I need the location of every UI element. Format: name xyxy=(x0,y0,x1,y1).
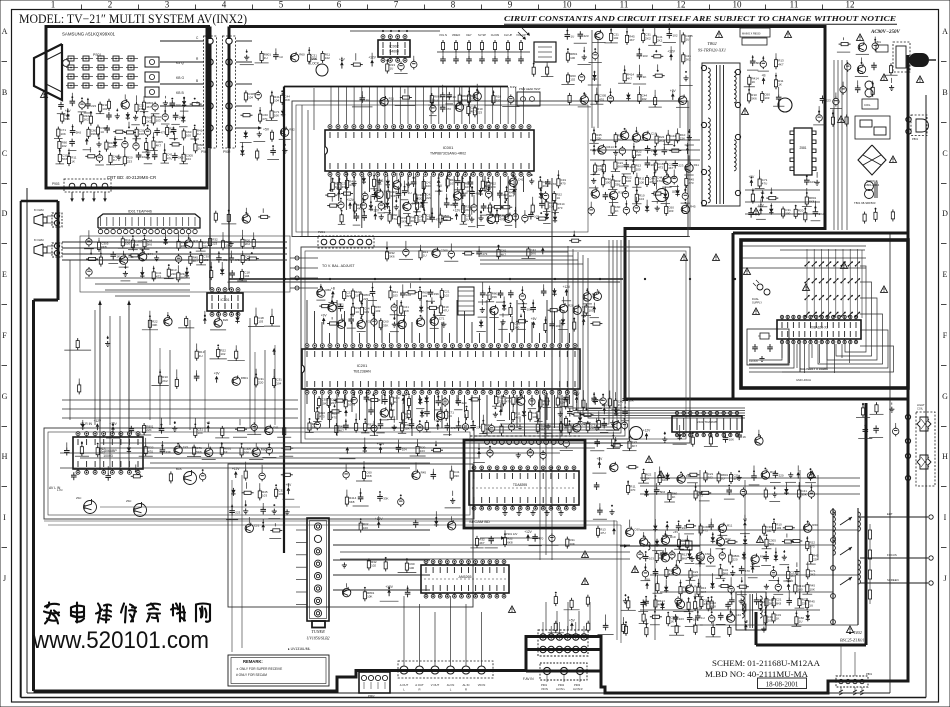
svg-text:SV SP: SV SP xyxy=(478,33,486,37)
svg-text:C41: C41 xyxy=(518,177,524,181)
svg-text:5K6: 5K6 xyxy=(62,157,68,161)
svg-text:KEY: KEY xyxy=(466,33,472,37)
IC xyxy=(207,288,243,317)
line filter T801 xyxy=(865,182,874,191)
svg-text:103: 103 xyxy=(176,103,181,107)
left area long verticals xyxy=(94,310,96,425)
svg-text:8: 8 xyxy=(451,0,456,10)
svg-text:473: 473 xyxy=(506,400,511,404)
thick loop left/bottom xyxy=(21,200,58,202)
svg-text:2K2: 2K2 xyxy=(651,163,657,167)
svg-text:IC301: IC301 xyxy=(220,298,229,302)
thick loop bottom xyxy=(34,637,910,694)
svg-text:223: 223 xyxy=(477,111,482,115)
svg-text:220: 220 xyxy=(258,381,263,385)
IC audio AN5265 xyxy=(421,560,509,598)
V.BAL wires xyxy=(290,257,318,259)
svg-text:G: G xyxy=(942,392,948,401)
svg-text:TC4066BP: TC4066BP xyxy=(99,449,117,453)
svg-text:47U: 47U xyxy=(443,309,449,313)
fuse F801 xyxy=(876,45,888,52)
svg-text:4K7: 4K7 xyxy=(146,105,152,109)
svg-text:+12V: +12V xyxy=(372,209,380,213)
thick vertical wire x284 xyxy=(283,87,285,554)
svg-text:I: I xyxy=(944,513,947,522)
right nested wires xyxy=(845,266,866,352)
svg-text:104: 104 xyxy=(274,99,279,103)
svg-text:H: H xyxy=(942,452,948,461)
svg-text:102: 102 xyxy=(444,293,449,297)
transformer T802 xyxy=(702,63,740,206)
svg-text:10: 10 xyxy=(563,0,573,10)
misc long verticals top xyxy=(301,105,303,236)
svg-text:4: 4 xyxy=(222,0,227,10)
svg-text:1U: 1U xyxy=(197,132,201,136)
right side gray verticals xyxy=(833,60,835,230)
svg-text:P902: P902 xyxy=(223,150,231,154)
svg-text:100: 100 xyxy=(605,181,610,185)
svg-text:1U: 1U xyxy=(390,67,394,71)
svg-text:D: D xyxy=(942,209,948,218)
svg-text:KB G: KB G xyxy=(176,76,184,80)
IC 2401 TDA4605 xyxy=(672,411,742,436)
svg-text:100: 100 xyxy=(560,401,565,405)
tuner box xyxy=(307,518,329,621)
CRT cluster components xyxy=(60,102,62,105)
svg-text:2581: 2581 xyxy=(799,146,806,150)
clock transistor X201 xyxy=(316,64,328,76)
svg-text:100: 100 xyxy=(589,309,594,313)
svg-text:F801: F801 xyxy=(875,40,881,44)
bundle B down-left xyxy=(500,240,609,424)
transistor right of secam xyxy=(630,427,643,440)
svg-text:10: 10 xyxy=(733,0,743,10)
svg-text:1U: 1U xyxy=(355,310,359,314)
svg-text:+9V: +9V xyxy=(601,403,608,407)
svg-text:G: G xyxy=(196,101,199,105)
svg-text:2K2: 2K2 xyxy=(162,379,168,383)
svg-text:473: 473 xyxy=(482,252,487,256)
svg-text:AV R IN: AV R IN xyxy=(80,422,93,426)
svg-text:D: D xyxy=(2,209,8,218)
svg-text:VOL N: VOL N xyxy=(439,33,447,37)
SECAM BD thick box xyxy=(464,440,585,528)
svg-text:+12V: +12V xyxy=(667,49,675,53)
svg-text:2K2: 2K2 xyxy=(146,119,152,123)
inner loop line 2 xyxy=(20,201,22,698)
IR receiver xyxy=(534,42,556,62)
svg-text:223: 223 xyxy=(331,401,336,405)
PSU horizontals xyxy=(590,139,700,141)
svg-text:5K6: 5K6 xyxy=(147,242,153,246)
svg-text:5K6: 5K6 xyxy=(389,255,395,259)
svg-text:223: 223 xyxy=(678,164,683,168)
svg-text:H: H xyxy=(2,452,8,461)
svg-text:100: 100 xyxy=(426,184,431,188)
speaker xyxy=(34,244,43,256)
svg-text:1U: 1U xyxy=(448,414,452,418)
svg-text:MODEL: TV−21″ MULTI SYSTEM AV(: MODEL: TV−21″ MULTI SYSTEM AV(INX2) xyxy=(19,12,247,26)
thick loop top bus xyxy=(45,25,211,28)
svg-text:C: C xyxy=(196,36,199,40)
bus line A xyxy=(229,278,623,280)
svg-text:1U: 1U xyxy=(100,130,104,134)
IC002 S4004 xyxy=(378,35,410,63)
PSU clusters xyxy=(752,58,754,61)
F.AV thick row2 xyxy=(526,648,601,651)
IC201 TB1238AN xyxy=(302,344,580,395)
svg-text:100: 100 xyxy=(639,180,644,184)
svg-text:IC201: IC201 xyxy=(357,363,368,368)
svg-text:P801: P801 xyxy=(912,137,919,141)
H row horizontals xyxy=(62,399,298,401)
svg-text:R11: R11 xyxy=(389,97,395,101)
wires above IC001 xyxy=(330,87,332,124)
svg-text:470: 470 xyxy=(599,97,604,101)
svg-text:2K2: 2K2 xyxy=(659,139,665,143)
long mesh wires mid -- xyxy=(100,442,630,444)
bus line B xyxy=(300,236,690,238)
svg-text:223: 223 xyxy=(91,104,96,108)
svg-text:33K: 33K xyxy=(390,194,395,198)
IC xyxy=(73,432,143,475)
svg-text:1K: 1K xyxy=(778,83,782,87)
PSU mosfet xyxy=(778,98,792,112)
svg-text:2: 2 xyxy=(108,0,113,10)
connector P902 xyxy=(223,36,236,148)
bridge rectifier D801 xyxy=(858,145,886,175)
svg-text:1: 1 xyxy=(51,0,56,10)
svg-text:P901: P901 xyxy=(201,150,209,154)
IC201 pin up wires xyxy=(306,300,308,343)
svg-text:R801: R801 xyxy=(241,376,249,380)
AV out/in row xyxy=(398,661,493,678)
secondary rails xyxy=(740,245,866,247)
svg-text:11: 11 xyxy=(790,0,799,10)
svg-text:+12V: +12V xyxy=(346,198,354,202)
thick stub x756 xyxy=(755,612,758,645)
svg-text:+9V: +9V xyxy=(670,89,677,93)
svg-text:F: F xyxy=(943,331,948,340)
LED indicators xyxy=(757,284,763,290)
svg-text:470: 470 xyxy=(446,107,451,111)
AV row feed wires xyxy=(403,596,405,666)
svg-text:10K: 10K xyxy=(139,132,144,136)
svg-text:1K: 1K xyxy=(453,95,457,99)
svg-text:+9V: +9V xyxy=(758,203,765,207)
svg-text:SAMSUNG A51KQX99X01: SAMSUNG A51KQX99X01 xyxy=(62,32,116,37)
svg-text:1U: 1U xyxy=(199,354,203,358)
svg-text:1K: 1K xyxy=(116,254,120,258)
wires above grid xyxy=(780,249,865,251)
svg-text:3: 3 xyxy=(165,0,170,10)
svg-text:1U: 1U xyxy=(366,98,370,102)
svg-text:10K: 10K xyxy=(244,451,249,455)
inrush relay box xyxy=(855,116,890,139)
crystal sub box xyxy=(747,329,789,365)
svg-text:R414: R414 xyxy=(607,145,615,149)
svg-text:9: 9 xyxy=(508,0,513,10)
svg-text:F: F xyxy=(2,331,7,340)
svg-text:AC90V−250V: AC90V−250V xyxy=(870,30,901,35)
svg-text:5K6: 5K6 xyxy=(178,156,184,160)
wires tuner right xyxy=(333,529,430,531)
svg-text:R60: R60 xyxy=(299,53,305,57)
vertical wires to F.AV xyxy=(231,480,233,652)
svg-text:IC001: IC001 xyxy=(443,145,454,150)
svg-text:102: 102 xyxy=(673,34,678,38)
below IC001 cluster xyxy=(332,180,334,183)
svg-text:C18: C18 xyxy=(651,131,657,135)
svg-text:103: 103 xyxy=(156,119,161,123)
svg-text:102: 102 xyxy=(62,144,67,148)
svg-text:1U: 1U xyxy=(264,56,268,60)
svg-text:103: 103 xyxy=(393,294,398,298)
svg-text:10K: 10K xyxy=(462,98,467,102)
svg-text:102: 102 xyxy=(102,107,107,111)
IC201 pin down wires xyxy=(306,395,308,404)
svg-text:22K: 22K xyxy=(171,272,176,276)
svg-text:2K2: 2K2 xyxy=(84,118,90,122)
PSU left cluster xyxy=(593,131,595,134)
svg-text:102: 102 xyxy=(142,155,147,159)
enclosure IF section xyxy=(228,464,473,607)
svg-text:PS01: PS01 xyxy=(93,53,101,57)
enclosure around watermark area xyxy=(44,520,617,522)
svg-text:8 OHM: 8 OHM xyxy=(34,238,44,242)
svg-text:4K7: 4K7 xyxy=(156,144,162,148)
svg-text:6K8: 6K8 xyxy=(284,98,290,102)
svg-text:33K: 33K xyxy=(434,292,439,296)
IF cluster xyxy=(234,471,238,475)
CRT socket boxes xyxy=(145,57,159,67)
svg-text:CLOCK: CLOCK xyxy=(308,62,320,66)
F.AV bottom 3-circle connector xyxy=(540,663,587,680)
thick horizontal y645 xyxy=(756,644,866,647)
P201 connector strip xyxy=(318,236,374,248)
svg-text:473: 473 xyxy=(451,426,456,430)
svg-text:IC002: IC002 xyxy=(389,45,399,49)
svg-text:2K2: 2K2 xyxy=(543,184,549,188)
svg-text:MAINS X R8030: MAINS X R8030 xyxy=(742,33,761,36)
P801 connector xyxy=(836,676,868,687)
IC 2581 regulator xyxy=(794,128,812,175)
svg-text:100: 100 xyxy=(626,179,631,183)
svg-text:E: E xyxy=(2,270,7,279)
svg-text:2K2: 2K2 xyxy=(630,165,636,169)
enclosure around IC001 jungle xyxy=(292,101,688,237)
CRT neck funnel xyxy=(34,44,62,100)
svg-text:B: B xyxy=(942,88,947,97)
svg-text:TMP8873CSANG-4R02: TMP8873CSANG-4R02 xyxy=(430,152,466,156)
svg-text:R20: R20 xyxy=(223,318,229,322)
IC xyxy=(777,315,861,343)
svg-text:22K: 22K xyxy=(404,427,409,431)
CRT bottom connector P903 xyxy=(64,179,111,192)
AC plug xyxy=(909,53,929,67)
svg-text:KB B: KB B xyxy=(176,91,184,95)
long vertical wires xyxy=(551,178,553,438)
mains box xyxy=(740,28,770,37)
svg-text:COIL: COIL xyxy=(864,103,871,107)
bundle A to keyboard xyxy=(568,246,745,408)
svg-text:102: 102 xyxy=(642,97,647,101)
degauss coil xyxy=(865,81,873,89)
svg-text:473: 473 xyxy=(435,217,440,221)
svg-text:+9V: +9V xyxy=(336,187,343,191)
top-mid clusters xyxy=(246,55,248,58)
svg-text:R11: R11 xyxy=(273,425,279,429)
svg-text:103: 103 xyxy=(764,96,769,100)
svg-text:E: E xyxy=(943,270,948,279)
svg-text:C71: C71 xyxy=(439,316,445,320)
F.AV block xyxy=(538,630,588,656)
horizontal feeds into bundle xyxy=(480,251,568,253)
SECAM IC TDA8395 xyxy=(469,466,579,510)
CRT pad grid xyxy=(68,56,74,61)
svg-text:+B: +B xyxy=(331,287,335,291)
svg-text:104: 104 xyxy=(198,431,203,435)
svg-text:102: 102 xyxy=(220,352,225,356)
svg-text:+12V: +12V xyxy=(453,209,461,213)
svg-text:100: 100 xyxy=(636,167,641,171)
warning triangle crt xyxy=(41,91,48,97)
remark box xyxy=(228,655,329,686)
svg-text:1K: 1K xyxy=(71,159,75,163)
svg-text:+B: +B xyxy=(762,73,766,77)
svg-text:104: 104 xyxy=(276,381,281,385)
svg-text:C305: C305 xyxy=(441,248,449,252)
svg-text:1U: 1U xyxy=(686,38,690,42)
delay line box xyxy=(458,287,474,315)
svg-text:+12V: +12V xyxy=(368,56,376,60)
svg-text:R45: R45 xyxy=(690,204,696,208)
P902 bottom connector xyxy=(359,672,390,693)
EHT wires xyxy=(860,516,928,518)
svg-text:5K6: 5K6 xyxy=(76,131,82,135)
svg-text:ID01 TEAP446: ID01 TEAP446 xyxy=(128,210,152,214)
flyback T402 xyxy=(832,508,834,625)
svg-text:R11: R11 xyxy=(694,163,700,167)
svg-text:223: 223 xyxy=(499,399,504,403)
svg-text:R32: R32 xyxy=(289,127,295,131)
vertical wires left xyxy=(109,316,111,470)
svg-text:VIDEO: VIDEO xyxy=(452,33,460,37)
svg-text:+9V: +9V xyxy=(214,372,221,376)
sound horizontals xyxy=(62,241,287,243)
svg-text:2K2: 2K2 xyxy=(657,39,663,43)
svg-text:22K: 22K xyxy=(146,428,151,432)
inner loop line 3 xyxy=(26,188,28,693)
svg-text:47U: 47U xyxy=(762,182,768,186)
svg-text:1U: 1U xyxy=(571,35,575,39)
svg-text:2K2: 2K2 xyxy=(465,208,471,212)
svg-text:1U: 1U xyxy=(466,217,470,221)
svg-text:104: 104 xyxy=(639,197,644,201)
svg-text:10003: 10003 xyxy=(103,454,113,458)
svg-text:1U: 1U xyxy=(355,294,359,298)
warning triangles xyxy=(716,31,723,37)
sound wires xyxy=(85,277,190,279)
enclosure around IC201 jungle xyxy=(301,247,690,443)
svg-text:CH DN: CH DN xyxy=(491,33,500,37)
svg-text:B: B xyxy=(2,88,7,97)
svg-text:102: 102 xyxy=(570,78,575,82)
svg-text:9S-TRF020-XX1: 9S-TRF020-XX1 xyxy=(698,48,726,53)
coil wire cluster right xyxy=(620,545,700,547)
svg-text:J: J xyxy=(3,574,6,583)
svg-text:4K7: 4K7 xyxy=(629,38,635,42)
svg-text:220: 220 xyxy=(476,426,481,430)
svg-text:P201: P201 xyxy=(318,230,325,234)
svg-text:+5V: +5V xyxy=(531,317,538,321)
svg-text:TB1238AN: TB1238AN xyxy=(353,370,371,374)
thick vertical x825 xyxy=(824,27,827,230)
svg-text:473: 473 xyxy=(658,166,663,170)
svg-text:1U: 1U xyxy=(113,158,117,162)
svg-text:103: 103 xyxy=(367,426,372,430)
key switch grid xyxy=(806,249,808,318)
power region long wires xyxy=(640,529,858,531)
svg-text:4K7: 4K7 xyxy=(339,428,345,432)
+12VB arrows below secam xyxy=(501,536,505,539)
svg-text:104: 104 xyxy=(186,157,191,161)
svg-text:10K: 10K xyxy=(274,114,279,118)
AC outlet dashed xyxy=(911,115,927,136)
svg-text:5K6: 5K6 xyxy=(64,117,70,121)
svg-text:33K: 33K xyxy=(383,323,388,327)
svg-text:J: J xyxy=(943,574,946,583)
svg-text:8 OHM: 8 OHM xyxy=(34,208,44,212)
svg-text:102: 102 xyxy=(325,56,330,60)
right thick vertical xyxy=(907,55,910,683)
svg-text:P903: P903 xyxy=(52,182,60,186)
svg-text:CRT BD: 40-2129MS-CR: CRT BD: 40-2129MS-CR xyxy=(107,175,156,180)
speaker xyxy=(34,214,43,226)
svg-text:+5V: +5V xyxy=(263,128,270,132)
svg-text:223: 223 xyxy=(496,98,501,102)
B+ rail xyxy=(284,86,508,88)
watermark chinese characters xyxy=(44,603,210,624)
connector P901 xyxy=(204,36,217,148)
thick vertical x866 xyxy=(865,403,868,645)
enclosure sound xyxy=(80,236,290,292)
svg-text:473: 473 xyxy=(557,206,562,210)
svg-text:5K6: 5K6 xyxy=(751,97,757,101)
svg-text:103: 103 xyxy=(668,209,673,213)
AC inlet dashed box xyxy=(893,42,910,72)
svg-text:1K: 1K xyxy=(615,209,619,213)
svg-text:473: 473 xyxy=(160,131,165,135)
svg-text:4K7: 4K7 xyxy=(668,166,674,170)
svg-text:2K2: 2K2 xyxy=(645,36,651,40)
svg-text:1K: 1K xyxy=(224,450,228,454)
svg-text:223: 223 xyxy=(826,99,831,103)
svg-text:103: 103 xyxy=(375,309,380,313)
svg-text:2K2: 2K2 xyxy=(245,242,251,246)
svg-text:SUPPLY: SUPPLY xyxy=(752,300,762,304)
svg-text:220: 220 xyxy=(417,197,422,201)
signal arrows up xyxy=(99,302,101,470)
below IC201 cluster xyxy=(309,421,311,424)
svg-text:+9V: +9V xyxy=(321,313,328,317)
svg-text:1K: 1K xyxy=(643,75,647,79)
svg-text:6: 6 xyxy=(337,0,342,10)
F.AV thick row3 xyxy=(526,670,601,673)
svg-text:33K: 33K xyxy=(91,132,96,136)
H-row jacks xyxy=(916,412,935,486)
svg-text:100: 100 xyxy=(570,56,575,60)
